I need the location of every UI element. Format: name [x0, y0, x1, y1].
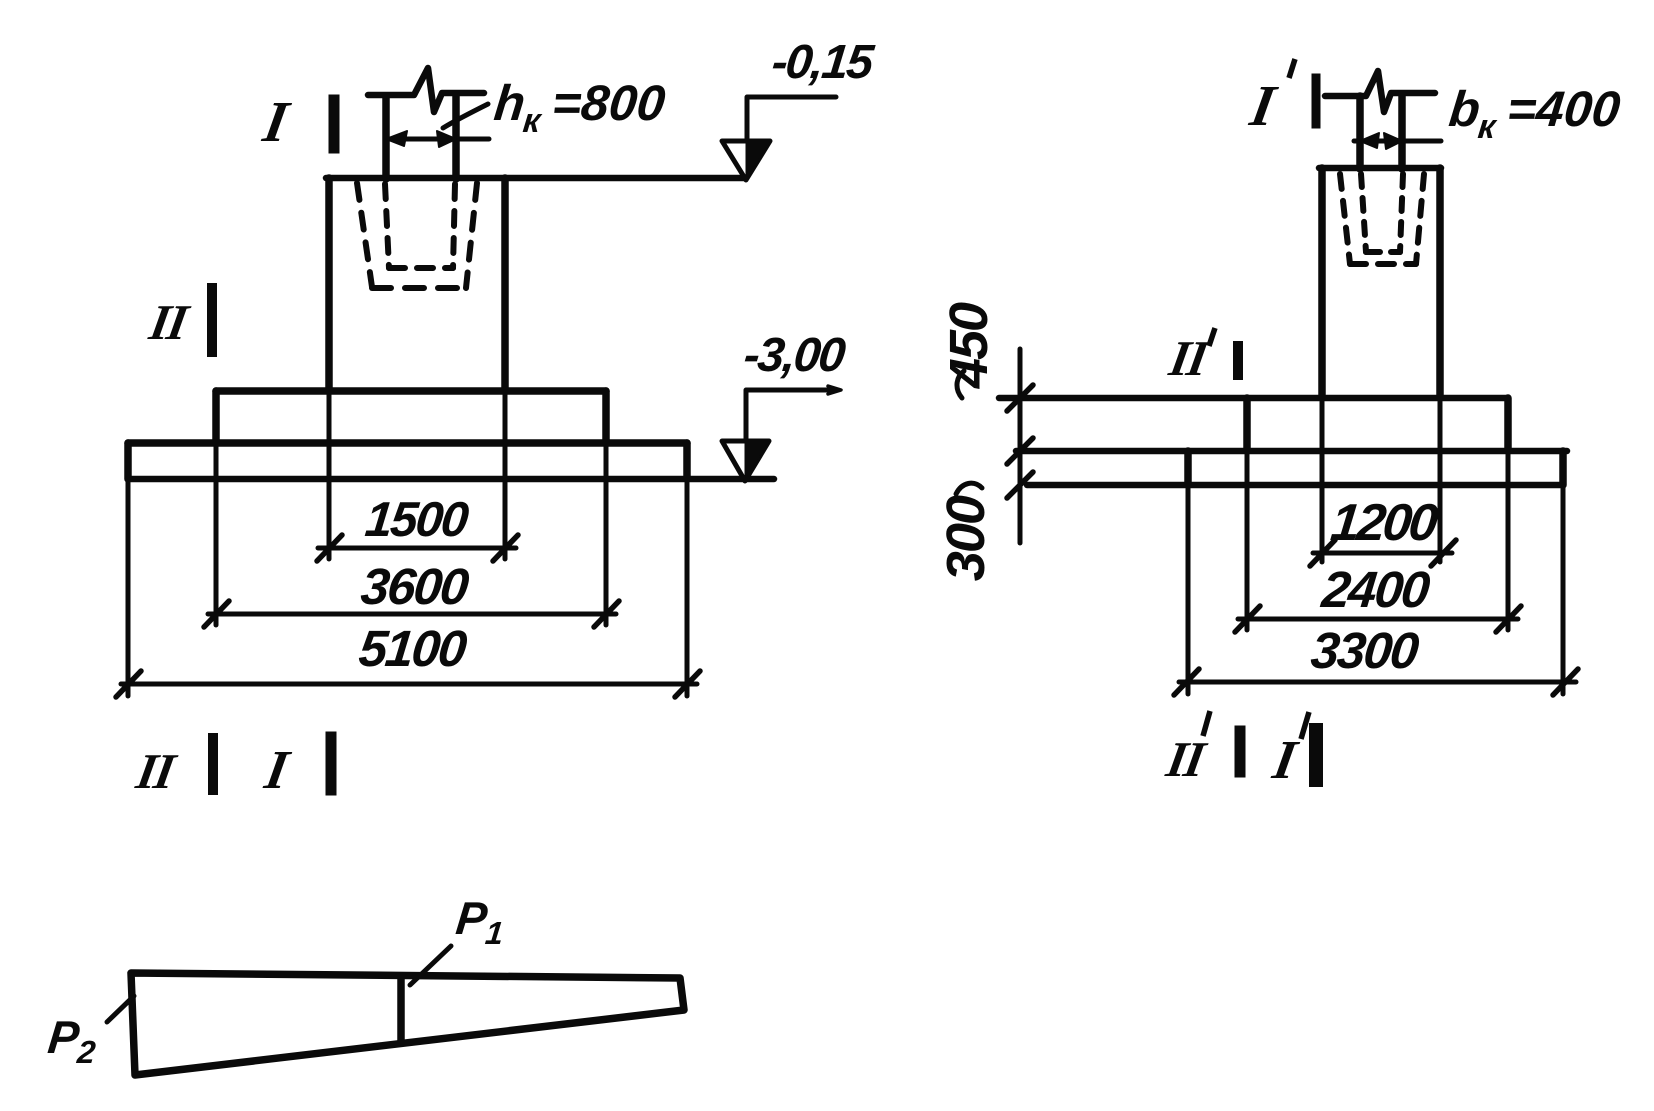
tick at slab bottom: [1007, 472, 1033, 498]
svg-text:II: II: [132, 743, 182, 799]
middle step right face: [602, 391, 610, 443]
dimension line 1500: [318, 546, 516, 551]
svg-text:I: I: [1245, 73, 1282, 138]
arrowhead on -3,00 stem: [828, 386, 841, 394]
svg-text:bк=400: bк=400: [1446, 81, 1623, 146]
right column embedded dashed left: [1361, 174, 1366, 252]
extension line pier right: [503, 391, 508, 559]
right column top edge with break mark: [1325, 71, 1435, 112]
left column top edge with break mark: [368, 68, 484, 112]
apostrophe I' bottom: [1301, 712, 1309, 739]
right base slab top edge with leader to height dim: [1016, 448, 1567, 455]
elevation mark -3,00 triangle outline: [722, 441, 769, 481]
apostrophe II' bottom: [1203, 711, 1210, 736]
tick 2400 right: [1496, 606, 1521, 632]
column embedded dashed left: [385, 184, 389, 268]
middle step top edge: [216, 387, 606, 395]
extension line step right: [604, 443, 609, 625]
right middle step top edge with leader to height dim: [999, 395, 1508, 402]
tick 3600 left: [204, 601, 229, 627]
extension line right step left: [1245, 451, 1250, 630]
right pier left face: [1318, 168, 1326, 398]
socket outer dashed left: [357, 183, 372, 287]
svg-text:3600: 3600: [358, 558, 471, 615]
extension line slab right: [685, 479, 690, 696]
column embedded dashed right: [453, 184, 455, 268]
dimension line 2400: [1238, 617, 1518, 622]
section tick II bottom: [208, 738, 218, 790]
section tick I' bottom: [1309, 730, 1323, 780]
tick 1200 right: [1431, 540, 1456, 566]
svg-text:I: I: [260, 739, 295, 800]
base slab top edge: [128, 439, 687, 447]
left column shaft left face: [382, 96, 390, 179]
leader P2: [107, 996, 134, 1022]
arrowhead right (bk): [1384, 133, 1402, 149]
tick at step top: [1007, 385, 1033, 411]
section tick I' top: [1312, 78, 1321, 124]
right column shaft left face: [1356, 96, 1364, 169]
svg-text:2400: 2400: [1318, 561, 1432, 618]
dimension line 5100: [121, 682, 697, 687]
svg-text:I: I: [1268, 729, 1303, 790]
left column shaft right face: [452, 94, 460, 179]
right pier right face: [1436, 168, 1444, 398]
svg-text:1200: 1200: [1328, 494, 1441, 552]
elevation mark -0,15 triangle outline: [722, 141, 770, 180]
section tick I top: [329, 100, 340, 148]
svg-text:5100: 5100: [356, 620, 469, 677]
arrowhead right (hk): [437, 131, 456, 147]
right pier top edge: [1319, 165, 1441, 172]
svg-text:II: II: [145, 294, 195, 350]
svg-text:P1: P1: [453, 892, 508, 951]
tick 1200 left: [1310, 540, 1335, 566]
section tick II' mid: [1233, 346, 1243, 375]
dimension line 1200: [1313, 551, 1452, 556]
right base slab right face: [1559, 451, 1567, 485]
middle step left face: [212, 391, 220, 443]
ground line at -3,00: [128, 476, 774, 483]
pier top edge and leader to elevation -0,15: [326, 175, 746, 182]
apostrophe II' mid: [1209, 328, 1215, 346]
base slab right face: [683, 443, 691, 479]
right middle step left face: [1243, 398, 1251, 451]
leader squiggle from hk text to column: [443, 104, 488, 128]
extension line right pier right: [1438, 398, 1443, 562]
elevation mark -3,00 filled half: [745, 441, 769, 481]
section tick II mid: [207, 288, 217, 352]
dimension line 3600: [208, 612, 616, 617]
apostrophe I' top: [1289, 59, 1295, 78]
svg-text:II: II: [1165, 330, 1215, 386]
svg-text:I: I: [258, 89, 295, 154]
right column shaft right face: [1398, 94, 1406, 169]
svg-text:300: 300: [936, 495, 996, 581]
right middle step right face: [1504, 398, 1512, 451]
socket outer dashed right: [466, 183, 477, 288]
column embedded dashed bottom: [389, 265, 453, 271]
tick 3300 right: [1553, 669, 1578, 695]
flourish above 300: [956, 483, 982, 494]
tick 1500 left: [317, 535, 342, 561]
svg-text:hк=800: hк=800: [491, 75, 668, 140]
tick 2400 left: [1235, 606, 1260, 632]
right column embedded dashed right: [1400, 174, 1403, 252]
pier right face: [501, 178, 509, 391]
section tick I bottom: [326, 737, 337, 790]
vertical dimension line 450/300: [1018, 349, 1023, 543]
dimension line bk=400: [1354, 139, 1441, 144]
right socket outer dashed bottom: [1350, 261, 1416, 267]
extension line step left: [214, 443, 219, 625]
right base slab left face: [1184, 451, 1192, 485]
tick at slab top: [1007, 438, 1033, 464]
svg-text:-0,15: -0,15: [769, 35, 877, 89]
right ground line: [1027, 482, 1561, 489]
tick 3300 left: [1174, 669, 1199, 695]
tick 1500 right: [493, 535, 518, 561]
svg-text:450: 450: [939, 302, 999, 389]
flourish under 450: [957, 371, 964, 398]
arrowhead left (hk): [386, 131, 407, 146]
extension line right pier left: [1320, 398, 1325, 562]
svg-text:II: II: [1162, 731, 1212, 787]
elevation mark -0,15 filled half: [746, 141, 770, 180]
svg-text:P2: P2: [45, 1011, 100, 1070]
right socket outer dashed left: [1340, 174, 1350, 264]
right column embedded dashed bottom: [1366, 249, 1400, 255]
pier left face: [325, 178, 333, 391]
tick 5100 right: [675, 671, 700, 697]
socket outer dashed bottom: [372, 285, 466, 291]
dimension line 3300: [1179, 680, 1576, 685]
svg-text:3300: 3300: [1308, 622, 1421, 679]
extension line pier left: [327, 391, 332, 559]
elevation mark -3,00 stem: [746, 390, 838, 441]
leader P1: [410, 946, 451, 985]
dimension line hk=800: [386, 137, 489, 142]
svg-text:1500: 1500: [363, 493, 471, 547]
svg-text:-3,00: -3,00: [741, 328, 848, 382]
pressure trapezoid outline: [131, 973, 684, 1075]
section tick II' bottom: [1235, 731, 1246, 772]
pressure divider at P1: [397, 976, 405, 1043]
right socket outer dashed right: [1416, 174, 1424, 264]
elevation mark -0,15 stem: [747, 97, 836, 141]
extension line right slab left: [1186, 485, 1191, 694]
tick 3600 right: [594, 601, 619, 627]
arrowhead left (bk): [1360, 133, 1379, 148]
base slab left face: [124, 443, 132, 479]
extension line right step right: [1506, 451, 1511, 630]
extension line right slab right: [1561, 485, 1566, 694]
extension line slab left: [126, 479, 131, 696]
tick 5100 left: [116, 671, 141, 697]
